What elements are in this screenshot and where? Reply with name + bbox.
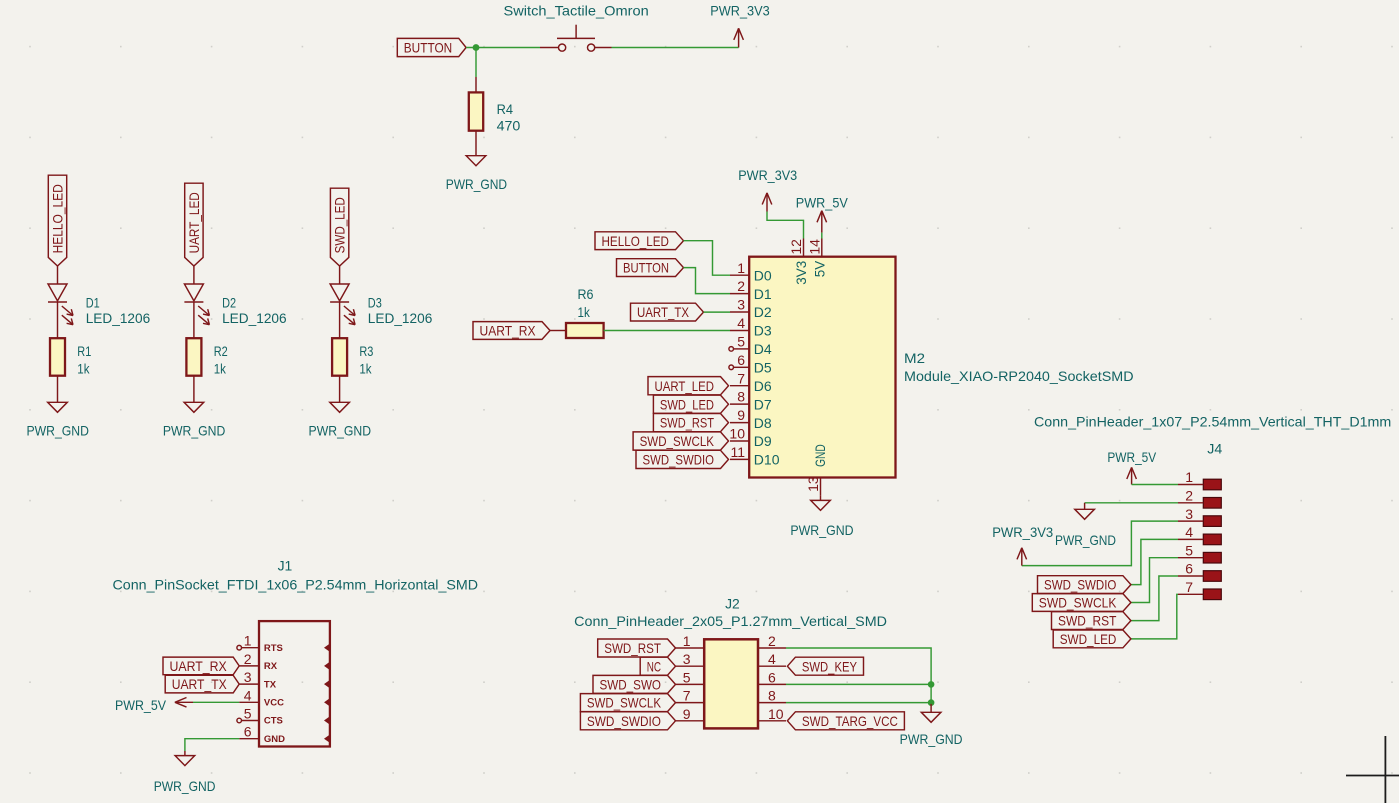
svg-text:D8: D8 [754, 415, 772, 431]
svg-text:7: 7 [737, 370, 745, 386]
resistor R1 [50, 338, 65, 376]
label J4 Conn_PinHeader_1x07_P2.54mm_Vertical_THT_D1mm [1034, 413, 1391, 456]
pin 2 RX [239, 651, 330, 672]
svg-text:PWR_5V: PWR_5V [1107, 449, 1156, 465]
pin 6 [758, 669, 786, 685]
svg-text:PWR_GND: PWR_GND [154, 778, 216, 794]
ground PWR_GND [790, 496, 853, 538]
wire BUTTON to pin 2 [684, 268, 731, 294]
pin 6 D5 [729, 352, 772, 376]
ground PWR_GND [446, 156, 507, 192]
pin 12 3V3 [788, 239, 809, 285]
svg-text:R1: R1 [77, 343, 91, 359]
svg-text:Conn_PinSocket_FTDI_1x06_P2.54: Conn_PinSocket_FTDI_1x06_P2.54mm_Horizon… [113, 577, 479, 593]
wire UART_RX to R6 [550, 330, 566, 332]
wire pin 5 to SWD_SWCLK [1131, 558, 1178, 603]
svg-text:SWD_SWDIO: SWD_SWDIO [643, 452, 715, 468]
wire R3 to ground [339, 376, 341, 403]
pin 10 [758, 706, 786, 722]
wire D3 to R3 [339, 302, 341, 338]
global label SWD_TARG_VCC [787, 712, 904, 730]
power PWR_3V3 [710, 3, 770, 48]
svg-text:D5: D5 [754, 360, 772, 376]
svg-text:Module_XIAO-RP2040_SocketSMD: Module_XIAO-RP2040_SocketSMD [904, 368, 1134, 384]
wire PWR_5V to pin 1 [1132, 484, 1178, 486]
wire R2 to ground [193, 376, 195, 403]
pin 1 D0 [730, 260, 772, 284]
svg-text:2: 2 [737, 278, 745, 294]
svg-text:6: 6 [768, 669, 776, 685]
svg-text:SWD_RST: SWD_RST [1058, 613, 1117, 629]
svg-text:PWR_GND: PWR_GND [26, 423, 89, 439]
pin 1 pad [1178, 469, 1221, 490]
global label UART_TX [631, 303, 704, 321]
pin 7 [676, 688, 705, 704]
svg-text:SWD_KEY: SWD_KEY [802, 658, 858, 674]
svg-text:M2: M2 [904, 350, 925, 366]
wire switch to PWR_3V3 [612, 47, 739, 49]
svg-text:PWR_5V: PWR_5V [796, 195, 849, 211]
svg-text:3: 3 [244, 669, 252, 685]
pin 8 [758, 688, 786, 704]
global label HELLO_LED [48, 175, 66, 266]
pin 2 [758, 633, 786, 649]
pin 2 D1 [730, 278, 772, 302]
svg-text:Conn_PinHeader_2x05_P1.27mm_Ve: Conn_PinHeader_2x05_P1.27mm_Vertical_SMD [574, 613, 887, 629]
svg-text:3: 3 [737, 297, 745, 313]
svg-text:PWR_GND: PWR_GND [309, 423, 372, 439]
label D3 LED_1206 [368, 294, 433, 326]
svg-text:1: 1 [737, 260, 745, 276]
svg-text:PWR_GND: PWR_GND [1055, 532, 1116, 548]
LED D1 [48, 284, 73, 325]
global label SWD_SWCLK [580, 694, 675, 712]
svg-text:UART_RX: UART_RX [170, 658, 228, 674]
svg-text:CTS: CTS [264, 716, 283, 727]
resistor R6 [566, 323, 604, 338]
svg-text:D4: D4 [754, 341, 772, 357]
resistor R2 [186, 338, 201, 376]
wire pin 4 to SWD_SWDIO [1131, 539, 1178, 584]
wire PWR_3V3 to pin 12 [767, 212, 804, 239]
wire pin 8 to ground [786, 702, 931, 704]
wire HELLO_LED to D1 [57, 266, 59, 284]
svg-text:UART_TX: UART_TX [637, 304, 690, 320]
wire pin 3 to PWR_3V3 [1022, 521, 1178, 566]
global label SWD_LED [653, 395, 728, 413]
svg-text:R3: R3 [359, 343, 373, 359]
junction [929, 682, 934, 687]
svg-text:8: 8 [737, 389, 745, 405]
ground PWR_GND [154, 751, 216, 794]
pin 5 D4 [729, 334, 772, 358]
LED D2 [184, 284, 209, 325]
svg-text:PWR_GND: PWR_GND [790, 522, 853, 538]
ground PWR_GND [309, 402, 372, 438]
svg-text:D7: D7 [754, 396, 772, 412]
global label SWD_SWDIO [1038, 576, 1131, 594]
global label UART_RX [473, 322, 550, 340]
svg-text:SWD_SWDIO: SWD_SWDIO [1044, 577, 1116, 593]
wire pin 6 GND to ground [185, 739, 239, 751]
wire HELLO_LED to pin 1 [684, 241, 731, 276]
wire D1 to R1 [57, 302, 59, 338]
pin 3 [676, 651, 705, 667]
svg-text:6: 6 [1185, 561, 1193, 577]
svg-text:1: 1 [244, 633, 252, 649]
switch SW Switch_Tactile_Omron [540, 25, 612, 52]
global label SWD_LED [1053, 630, 1131, 648]
global label SWD_SWCLK [633, 432, 728, 450]
svg-text:14: 14 [806, 239, 822, 255]
svg-text:UART_RX: UART_RX [480, 323, 537, 339]
svg-text:1k: 1k [214, 361, 227, 377]
power PWR_3V3 [738, 167, 797, 211]
svg-text:12: 12 [788, 239, 804, 255]
ground PWR_GND [26, 402, 89, 438]
label R1 1k [77, 343, 91, 377]
svg-text:1k: 1k [578, 304, 591, 320]
global label SWD_RST [653, 414, 728, 432]
wire pin 6 to SWD_RST [1131, 576, 1178, 621]
global label UART_TX [165, 675, 239, 693]
ground PWR_GND [1055, 503, 1116, 548]
svg-text:SWD_RST: SWD_RST [604, 640, 661, 656]
wire UART_LED to D2 [193, 266, 195, 284]
svg-text:SWD_SWCLK: SWD_SWCLK [640, 433, 715, 449]
pin 7 D6 [730, 370, 772, 394]
junction [473, 45, 478, 50]
svg-text:9: 9 [737, 407, 745, 423]
svg-text:5V: 5V [811, 260, 827, 277]
label R2 1k [214, 343, 228, 377]
svg-text:TX: TX [264, 679, 277, 690]
svg-text:4: 4 [768, 651, 776, 667]
svg-text:UART_LED: UART_LED [186, 192, 202, 253]
pin 10 D9 [729, 426, 771, 450]
pin 5 [676, 669, 705, 685]
svg-text:SWD_RST: SWD_RST [660, 415, 714, 431]
global label SWD_KEY [787, 657, 863, 675]
pin 5 pad [1178, 542, 1221, 563]
svg-text:UART_TX: UART_TX [172, 676, 228, 692]
svg-text:LED_1206: LED_1206 [368, 310, 433, 326]
svg-text:SWD_SWDIO: SWD_SWDIO [587, 713, 661, 729]
svg-text:4: 4 [1185, 524, 1193, 540]
svg-text:HELLO_LED: HELLO_LED [602, 233, 670, 249]
wire pin 7 to SWD_LED [1131, 594, 1178, 639]
label J2 Conn_PinHeader_2x05_P1.27mm_Vertical_SMD [574, 596, 887, 629]
pin 2 pad [1178, 488, 1221, 509]
label D2 LED_1206 [222, 294, 287, 326]
global label SWD_SWCLK [1032, 594, 1131, 612]
LED D3 [330, 284, 355, 325]
svg-text:8: 8 [768, 688, 776, 704]
pin 9 [676, 706, 705, 722]
svg-text:BUTTON: BUTTON [623, 260, 669, 276]
pin 13 GND [805, 444, 828, 495]
svg-text:UART_LED: UART_LED [655, 378, 715, 394]
pin 4 pad [1178, 524, 1221, 545]
wire R6 to pin 4 [604, 330, 730, 332]
pin 1 RTS [237, 633, 330, 654]
wire pin 2 to ground [1085, 502, 1178, 504]
svg-text:11: 11 [730, 444, 745, 460]
pin 6 pad [1178, 561, 1221, 582]
pin 5 CTS [237, 706, 330, 727]
wire pin 6 to ground [786, 683, 931, 685]
label R3 1k [359, 343, 373, 377]
svg-text:PWR_5V: PWR_5V [115, 697, 167, 713]
power PWR_5V [1107, 449, 1156, 485]
pin 3 pad [1178, 506, 1221, 527]
svg-text:3V3: 3V3 [793, 261, 809, 285]
svg-text:D1: D1 [754, 286, 772, 302]
svg-text:SWD_LED: SWD_LED [332, 197, 348, 253]
svg-text:Switch_Tactile_Omron: Switch_Tactile_Omron [504, 3, 649, 19]
svg-text:SWD_TARG_VCC: SWD_TARG_VCC [802, 713, 898, 729]
svg-text:PWR_GND: PWR_GND [163, 423, 226, 439]
global label UART_LED [185, 183, 203, 266]
svg-text:R2: R2 [214, 343, 228, 359]
wire SWD_LED to D3 [339, 266, 341, 284]
svg-text:5: 5 [1185, 542, 1193, 558]
global label SWD_RST [598, 639, 676, 657]
global label BUTTON [617, 259, 684, 277]
svg-text:GND: GND [264, 734, 285, 745]
svg-text:4: 4 [244, 687, 252, 703]
svg-text:HELLO_LED: HELLO_LED [50, 184, 66, 253]
svg-text:SWD_LED: SWD_LED [660, 396, 714, 412]
svg-text:J1: J1 [278, 558, 293, 574]
pin 4 VCC [239, 687, 330, 708]
svg-text:D6: D6 [754, 378, 772, 394]
label Switch_Tactile_Omron [504, 3, 649, 19]
module M2 body [749, 257, 895, 478]
svg-text:SWD_SWCLK: SWD_SWCLK [587, 695, 662, 711]
svg-text:6: 6 [244, 724, 252, 740]
svg-text:3: 3 [683, 651, 691, 667]
svg-text:VCC: VCC [264, 698, 284, 709]
global label SWD_LED [330, 188, 348, 266]
svg-text:9: 9 [683, 706, 691, 722]
global label UART_RX [163, 657, 239, 675]
wire BUTTON to switch [466, 47, 540, 49]
svg-text:Conn_PinHeader_1x07_P2.54mm_Ve: Conn_PinHeader_1x07_P2.54mm_Vertical_THT… [1034, 413, 1391, 429]
svg-text:D0: D0 [754, 267, 772, 283]
global label SWD_SWDIO [580, 712, 675, 730]
global label SWD_RST [1052, 612, 1131, 630]
connector J2 body [704, 639, 758, 728]
svg-text:PWR_GND: PWR_GND [446, 176, 507, 192]
global label BUTTON [397, 38, 466, 56]
svg-text:NC: NC [647, 658, 661, 674]
resistor R4 [469, 77, 483, 156]
pin 3 TX [239, 669, 330, 690]
ground PWR_GND [900, 704, 963, 747]
svg-text:2: 2 [244, 651, 252, 667]
pin 8 D7 [730, 389, 772, 413]
label J1 Conn_PinSocket_FTDI_1x06_P2.54mm_Horizontal_SMD [113, 558, 479, 593]
global label SWD_SWDIO [636, 450, 729, 468]
svg-text:2: 2 [1185, 488, 1193, 504]
svg-text:D3: D3 [368, 294, 382, 310]
svg-text:5: 5 [244, 706, 252, 722]
svg-text:7: 7 [683, 688, 691, 704]
svg-text:J2: J2 [725, 596, 740, 612]
svg-text:D3: D3 [754, 323, 772, 339]
pin 11 D10 [730, 444, 780, 468]
svg-text:5: 5 [683, 669, 691, 685]
label D1 LED_1206 [86, 294, 151, 326]
wire junction to R4 [475, 48, 477, 78]
pin 14 5V [806, 239, 827, 278]
svg-text:PWR_3V3: PWR_3V3 [992, 524, 1053, 540]
svg-text:6: 6 [737, 352, 745, 368]
pin 3 D2 [730, 297, 772, 321]
svg-text:D2: D2 [754, 304, 772, 320]
svg-text:1: 1 [1185, 469, 1193, 485]
svg-text:LED_1206: LED_1206 [86, 310, 151, 326]
svg-text:PWR_3V3: PWR_3V3 [738, 167, 797, 183]
svg-text:GND: GND [812, 444, 828, 467]
svg-text:10: 10 [729, 426, 745, 442]
global label HELLO_LED [595, 232, 684, 250]
svg-text:SWD_SWO: SWD_SWO [600, 677, 662, 693]
global label SWD_SWO [593, 675, 676, 693]
resistor R3 [332, 338, 347, 376]
junction [929, 700, 934, 705]
wire R1 to ground [57, 376, 59, 403]
svg-text:D1: D1 [86, 294, 100, 310]
svg-text:1: 1 [683, 633, 691, 649]
label M2 Module_XIAO-RP2040_SocketSMD [904, 350, 1134, 384]
wire PWR_5V to pin 4 VCC [193, 701, 239, 703]
svg-text:RTS: RTS [264, 643, 283, 654]
pin 9 D8 [730, 407, 772, 431]
global label NC [640, 657, 675, 675]
pin 1 [676, 633, 705, 649]
ground PWR_GND [163, 402, 226, 438]
svg-text:7: 7 [1185, 579, 1193, 595]
power PWR_5V [796, 195, 849, 233]
svg-text:5: 5 [737, 334, 745, 350]
pin 4 [758, 651, 786, 667]
power PWR_3V3 [992, 524, 1053, 566]
wire PWR_5V to pin 14 [821, 233, 823, 239]
svg-text:D2: D2 [222, 294, 236, 310]
wire D2 to R2 [193, 302, 195, 338]
svg-text:RX: RX [264, 661, 278, 672]
pin 7 pad [1178, 579, 1221, 600]
svg-text:4: 4 [737, 315, 745, 331]
svg-text:J4: J4 [1207, 440, 1222, 456]
svg-text:1k: 1k [359, 361, 372, 377]
svg-text:PWR_GND: PWR_GND [900, 731, 963, 747]
svg-text:R4: R4 [497, 101, 514, 117]
svg-text:D9: D9 [754, 433, 772, 449]
svg-text:3: 3 [1185, 506, 1193, 522]
pin 6 GND [239, 724, 330, 745]
svg-text:SWD_SWCLK: SWD_SWCLK [1039, 595, 1117, 611]
wire UART_TX to pin 3 [704, 311, 731, 313]
svg-text:2: 2 [768, 633, 776, 649]
wire pin 2 to ground [786, 648, 931, 704]
svg-text:13: 13 [805, 476, 821, 492]
svg-text:10: 10 [768, 706, 784, 722]
power PWR_5V [115, 697, 193, 713]
svg-text:LED_1206: LED_1206 [222, 310, 287, 326]
svg-text:PWR_3V3: PWR_3V3 [710, 3, 770, 19]
svg-text:470: 470 [497, 118, 521, 134]
svg-text:R6: R6 [578, 286, 594, 302]
label R4 470 [497, 101, 521, 134]
pin 4 D3 [730, 315, 772, 339]
global label UART_LED [648, 377, 729, 395]
svg-text:D10: D10 [754, 452, 780, 468]
svg-text:1k: 1k [77, 361, 90, 377]
label R6 1k [578, 286, 594, 320]
connector J1 body [259, 621, 330, 746]
svg-text:SWD_LED: SWD_LED [1060, 631, 1117, 647]
svg-text:BUTTON: BUTTON [404, 40, 452, 56]
